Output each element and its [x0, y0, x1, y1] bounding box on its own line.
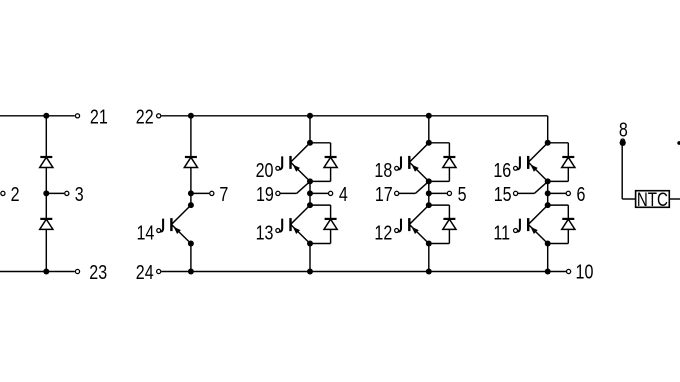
- svg-text:16: 16: [493, 158, 511, 181]
- svg-text:3: 3: [75, 182, 84, 205]
- svg-text:17: 17: [375, 182, 393, 205]
- svg-text:23: 23: [89, 260, 107, 283]
- svg-text:6: 6: [576, 182, 585, 205]
- svg-text:12: 12: [374, 221, 392, 244]
- svg-text:15: 15: [494, 182, 512, 205]
- svg-text:13: 13: [256, 221, 274, 244]
- svg-text:NTC: NTC: [637, 188, 668, 210]
- svg-text:2: 2: [11, 182, 20, 205]
- svg-text:14: 14: [136, 221, 154, 244]
- svg-text:4: 4: [339, 182, 348, 205]
- svg-text:11: 11: [493, 221, 510, 244]
- svg-text:22: 22: [136, 105, 154, 128]
- svg-text:8: 8: [619, 117, 628, 140]
- svg-text:10: 10: [576, 260, 594, 283]
- svg-text:19: 19: [256, 182, 274, 205]
- svg-text:24: 24: [136, 260, 154, 283]
- svg-text:18: 18: [374, 158, 392, 181]
- svg-text:21: 21: [90, 105, 108, 128]
- svg-text:7: 7: [219, 182, 228, 205]
- svg-text:5: 5: [458, 182, 467, 205]
- svg-text:20: 20: [256, 158, 274, 181]
